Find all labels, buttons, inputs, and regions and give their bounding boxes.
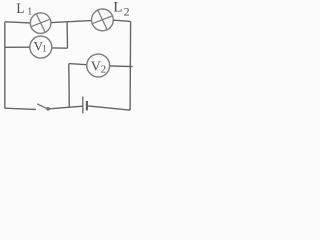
lamp L2 (92, 9, 114, 31)
label V2 (inside voltmeter) (91, 59, 106, 75)
svg-text:V: V (91, 59, 101, 74)
label V1 (inside voltmeter) (34, 39, 47, 54)
voltmeter V1 circle (30, 36, 52, 58)
svg-text:2: 2 (124, 5, 130, 19)
wire: V1 left lead to left side (5, 46, 30, 48)
wire: switch to battery (50, 106, 83, 109)
wire: V2 left lead (69, 64, 87, 65)
svg-text:1: 1 (27, 7, 32, 18)
wire: vertical branch from V2 down to bottom wire (68, 64, 71, 108)
battery (long plate + short thick plate) (83, 97, 87, 114)
wire: top-left horizontal (battery loop to L1) (5, 22, 31, 23)
voltmeter V2 circle (87, 54, 110, 77)
label L2 (113, 0, 129, 19)
wire: vertical branch from top wire down to V1 level (66, 22, 68, 48)
wire: left vertical side (4, 22, 6, 109)
wire: battery to bottom-right corner (88, 106, 130, 110)
wire: bottom, corner to switch (5, 108, 36, 109)
wire: L2 to top-right corner (113, 20, 130, 21)
svg-text:L: L (113, 0, 122, 15)
svg-text:2: 2 (101, 63, 107, 75)
lamp L1 (30, 13, 51, 34)
svg-text:L: L (16, 1, 24, 17)
switch S (open blade + contact) (37, 104, 49, 110)
label L1 (16, 1, 32, 18)
wire: right vertical side (129, 21, 132, 110)
wire: V1 right lead (52, 47, 68, 49)
svg-text:1: 1 (42, 44, 47, 54)
wire: between L1 and L2 (51, 21, 92, 23)
wire: V2 right lead to right side (110, 65, 133, 68)
